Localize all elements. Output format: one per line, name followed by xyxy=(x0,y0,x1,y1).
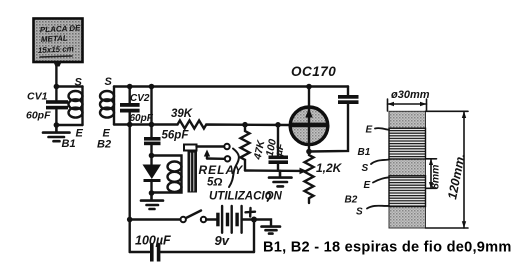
svg-text:ø30mm: ø30mm xyxy=(391,89,430,101)
svg-text:S: S xyxy=(75,77,83,89)
relay contact 2 xyxy=(225,156,230,161)
svg-text:S: S xyxy=(362,163,369,174)
svg-text:OC170: OC170 xyxy=(291,64,336,79)
node antenna/B1 top xyxy=(54,84,60,90)
svg-text:E: E xyxy=(366,125,373,136)
ground (below diode) xyxy=(141,193,163,209)
capacitor 100uF (bottom) xyxy=(150,244,160,262)
dim 8mm xyxy=(426,159,437,189)
capacitor CV1 xyxy=(46,87,68,126)
terminal lead S (B2 end) xyxy=(367,206,389,209)
label + (battery) xyxy=(246,208,256,217)
ground (below 100uF) xyxy=(269,171,292,187)
wire 47K/100uF bottom to wiper arrow xyxy=(245,169,300,172)
svg-text:UTILIZACION: UTILIZACION xyxy=(209,191,283,203)
svg-text:B1: B1 xyxy=(62,138,76,150)
node collector top xyxy=(306,84,312,90)
terminal lead S (B1 end) xyxy=(371,160,389,165)
resistor 47K xyxy=(241,125,250,171)
svg-text:9v: 9v xyxy=(215,233,230,248)
svg-text:S: S xyxy=(356,207,363,218)
relay coil xyxy=(152,156,182,193)
node battery plus xyxy=(251,217,257,223)
resistor 39K xyxy=(152,121,290,129)
svg-text:100µF: 100µF xyxy=(135,234,171,248)
ground (battery plus) xyxy=(262,227,281,234)
svg-text:METAL: METAL xyxy=(41,34,69,44)
svg-text:56pF: 56pF xyxy=(162,130,190,142)
wire B2 bottom rail xyxy=(114,123,152,125)
svg-text:CV1: CV1 xyxy=(27,91,48,103)
relay armature xyxy=(184,145,224,151)
node 39K line crossing xyxy=(149,122,155,128)
dim phi30mm xyxy=(388,99,427,111)
brace to utilizacion xyxy=(229,149,239,188)
wire 56pF branch from top rail xyxy=(150,87,152,138)
dim 120mm xyxy=(426,111,469,228)
node left rail / switch wire xyxy=(127,217,133,223)
capacitor C 56pF xyxy=(144,137,161,156)
capacitor 100uF (emitter bypass) xyxy=(269,125,289,171)
wire antenna to B1 tank xyxy=(55,64,57,87)
node CV1 bottom xyxy=(54,122,60,128)
wire B1 top rail xyxy=(56,85,82,87)
wire top rail (B2 to collector node) xyxy=(114,85,348,87)
svg-text:60pF: 60pF xyxy=(26,110,51,122)
svg-text:15x15 cm: 15x15 cm xyxy=(38,44,74,55)
inductor B2 xyxy=(100,87,114,125)
wire to right ground xyxy=(254,220,271,227)
resistor 1.2K (emitter) xyxy=(305,152,314,204)
node 100uF top xyxy=(275,122,281,128)
terminal lead E (B2 start) xyxy=(373,177,389,182)
wire switch to battery xyxy=(206,218,216,220)
svg-text:RELAY: RELAY xyxy=(199,163,244,177)
relay core bar xyxy=(188,152,198,193)
svg-text:39K: 39K xyxy=(171,108,193,120)
capacitor feedback (collector-emitter) xyxy=(309,87,359,152)
svg-text:B1: B1 xyxy=(358,147,371,158)
relay contact 1 xyxy=(224,144,229,149)
svg-text:µF: µF xyxy=(273,142,287,158)
svg-text:B2: B2 xyxy=(345,195,358,206)
relay wiper arrow xyxy=(204,150,224,159)
svg-text:5Ω: 5Ω xyxy=(207,177,222,189)
switch xyxy=(181,211,207,223)
svg-text:1,2K: 1,2K xyxy=(316,161,343,175)
svg-text:8mm: 8mm xyxy=(430,164,442,189)
node CV2 top xyxy=(127,84,133,90)
inductor B1 xyxy=(69,87,83,126)
left rail wire (down from CV2 bottom) xyxy=(128,125,130,253)
wire B1 bottom rail xyxy=(56,124,82,126)
wire battery line xyxy=(130,218,181,220)
node CV2 bottom xyxy=(127,122,133,128)
node 56pF top (top rail) xyxy=(149,84,155,90)
terminal lead E (B1 top) xyxy=(375,128,389,130)
svg-text:B1, B2 - 18 espiras de fio de0: B1, B2 - 18 espiras de fio de0,9mm xyxy=(263,240,512,256)
diode D1 xyxy=(143,156,162,194)
svg-text:E: E xyxy=(76,128,84,140)
node diode bottom xyxy=(149,190,155,196)
metal plate (antenna) box xyxy=(34,19,83,67)
battery 9V xyxy=(216,206,254,233)
node 47K top xyxy=(242,122,248,128)
arrow into 1.2K xyxy=(300,168,307,175)
coil former cylinder xyxy=(389,111,426,228)
node emitter xyxy=(306,149,312,155)
transistor OC170 xyxy=(290,87,328,152)
node diode top xyxy=(149,153,155,159)
wire bottom return xyxy=(161,251,255,253)
svg-text:CV2: CV2 xyxy=(130,93,150,104)
wire down from plus node xyxy=(253,220,255,253)
ground (below CV1) xyxy=(43,125,70,141)
stray hook mark xyxy=(267,193,271,201)
svg-text:S: S xyxy=(105,76,113,88)
metal plate text xyxy=(38,23,82,57)
svg-text:E: E xyxy=(364,180,371,191)
capacitor CV2 xyxy=(120,87,140,125)
svg-text:B2: B2 xyxy=(97,139,111,151)
